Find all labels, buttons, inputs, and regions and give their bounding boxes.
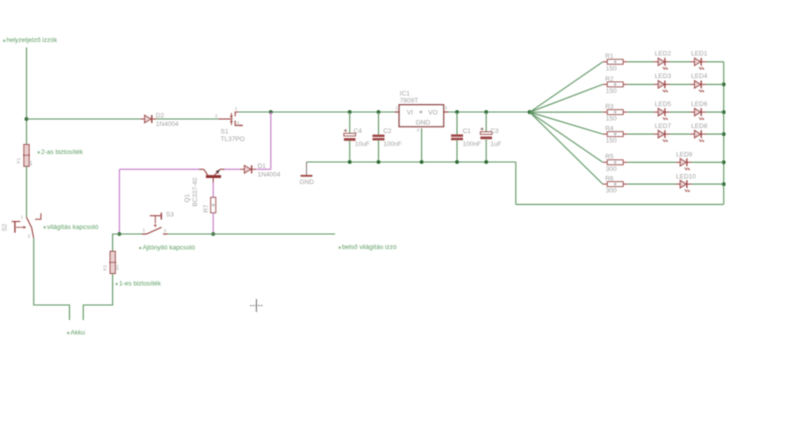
sheet origin cross [250, 299, 263, 312]
label R4 150 [605, 126, 617, 145]
svg-text:7809T: 7809T [400, 98, 418, 105]
junction dots LED column [722, 83, 726, 187]
wire: magenta transistor to D1 [224, 168, 240, 170]
svg-text:LED6: LED6 [691, 101, 708, 108]
label GND [300, 179, 315, 186]
svg-text:2-as biztosíték: 2-as biztosíték [41, 149, 84, 156]
fuse F2 [109, 251, 116, 273]
label LED8 [691, 123, 708, 130]
svg-text:1N4004: 1N4004 [156, 121, 179, 128]
label LED7 [655, 123, 672, 130]
wire: R5 to LED9 [628, 161, 677, 163]
svg-text:LED9: LED9 [676, 152, 693, 159]
label D2 1N4004 [156, 113, 179, 128]
wire: door net left segment [119, 233, 142, 235]
svg-text:C2: C2 [383, 128, 392, 135]
net label: Akku [67, 330, 85, 337]
wire: magenta R7 to door net [212, 213, 214, 234]
svg-text:1uF: 1uF [490, 141, 501, 148]
svg-text:C1: C1 [463, 128, 472, 135]
svg-text:R7: R7 [203, 204, 210, 213]
svg-text:R4: R4 [605, 126, 614, 133]
svg-text:LED7: LED7 [655, 123, 672, 130]
wire: magenta base feed horizontal [119, 168, 199, 170]
label R3 150 [605, 104, 617, 123]
svg-text:LED3: LED3 [655, 73, 672, 80]
resistor R5 300 [603, 160, 628, 165]
wire: IC1 GND pin down [421, 129, 423, 162]
diode D1 [240, 165, 256, 173]
net label: világítás kapcsoló [44, 224, 99, 231]
svg-text:150: 150 [606, 116, 617, 123]
wire: fan branch to R3 [530, 111, 603, 113]
fuse F1 [23, 145, 30, 167]
svg-text:belső világítás izzó: belső világítás izzó [342, 244, 397, 251]
svg-text:GND: GND [300, 179, 315, 186]
LED LED4 [690, 81, 706, 93]
wire: magenta Q1 to R7 [212, 182, 214, 197]
label R6 300 [605, 176, 617, 195]
fan-out node from 9V rail [528, 110, 532, 114]
wire: top rail 9V [239, 111, 530, 113]
label S1 TL37PO [221, 128, 245, 142]
diode D2 [140, 115, 156, 123]
svg-text:LED2: LED2 [655, 51, 672, 58]
wire: R3 to LED5 [628, 111, 655, 113]
wire: jog to F2 [113, 234, 120, 251]
svg-text:150: 150 [606, 88, 617, 95]
svg-text:150: 150 [606, 65, 617, 72]
svg-text:F1: F1 [16, 157, 22, 163]
svg-text:helyzetjelző izzók: helyzetjelző izzók [7, 37, 58, 44]
wire: LED7 to LED8 [670, 133, 691, 135]
svg-text:S2: S2 [1, 223, 8, 231]
label C4 10uF [354, 128, 370, 148]
svg-text:C4: C4 [354, 128, 363, 135]
svg-text:BC337-40: BC337-40 [192, 177, 199, 206]
wire: door net right segment [168, 233, 335, 235]
label LED3 [655, 73, 672, 80]
label R2 150 [605, 76, 617, 95]
wire: horizontal to D2 [27, 118, 141, 120]
svg-text:Q1: Q1 [184, 194, 191, 203]
svg-text:R1: R1 [605, 53, 614, 60]
wire: LED2 to LED1 [670, 61, 691, 63]
capacitor C2 100nF [373, 112, 385, 162]
pin numbers S3 [143, 228, 167, 233]
resistor R6 300 [603, 182, 628, 187]
svg-text:LED8: LED8 [691, 123, 708, 130]
svg-text:Akku: Akku [71, 330, 86, 337]
switch S1 TL37PO [218, 112, 243, 125]
IC1 inner text VI + VO GND [407, 109, 438, 126]
svg-text:C3: C3 [490, 128, 499, 135]
label IC1 7809T [400, 91, 418, 105]
LED LED2 [654, 58, 670, 70]
LED LED3 [654, 81, 670, 93]
wire: LED9 to return column [692, 161, 724, 163]
wire: LED6 to return column [706, 111, 724, 113]
label D1 1N4004 [258, 163, 281, 179]
wire: LED4 to return column [706, 83, 724, 85]
label Q1 BC337-40 [184, 177, 199, 206]
label S3 [166, 212, 174, 219]
svg-text:VO: VO [428, 109, 437, 116]
wire: fan branch to R1 [530, 62, 603, 112]
switch S3 [142, 213, 168, 234]
svg-text:300: 300 [606, 188, 617, 195]
wire: LED return column [723, 62, 725, 205]
svg-text:F2: F2 [103, 265, 109, 271]
wire: ground rail [307, 161, 516, 163]
wire: S2 to battery [34, 238, 70, 320]
svg-text:LED5: LED5 [655, 101, 672, 108]
transistor Q1 BC337-40 [199, 169, 225, 182]
label LED5 [655, 101, 672, 108]
label LED6 [691, 101, 708, 108]
wire: LED8 to return column [706, 133, 724, 135]
wire: R6 to LED10 [628, 183, 677, 185]
wire: D2 to S1 [157, 118, 219, 120]
svg-text:S1: S1 [221, 128, 229, 135]
LED LED8 [690, 130, 706, 142]
svg-text:VI: VI [407, 109, 413, 116]
wire: fan branch to R4 [530, 112, 603, 134]
resistor R2 150 [603, 82, 628, 87]
voltage regulator IC1 7809T [395, 105, 449, 132]
svg-text:TL37PO: TL37PO [221, 136, 245, 143]
switch S2 [12, 213, 41, 238]
junction rail/D1 branch [269, 110, 273, 114]
svg-text:10uF: 10uF [355, 141, 370, 148]
label C3 1uF [490, 128, 501, 148]
svg-text:LED1: LED1 [691, 51, 708, 58]
label LED4 [691, 73, 708, 80]
LED LED6 [690, 108, 706, 120]
LED LED9 [676, 158, 692, 170]
wire: fan branch to R5 [530, 112, 603, 162]
svg-text:1-es biztosíték: 1-es biztosíték [119, 281, 162, 288]
wire: magenta drop to D1 [270, 112, 272, 169]
junction R7/door wire [211, 232, 215, 236]
label LED2 [655, 51, 672, 58]
junction dots ground rail [348, 160, 488, 164]
svg-text:R3: R3 [605, 104, 614, 111]
wire: fan branch to R2 [530, 84, 603, 112]
label LED9 [676, 152, 693, 159]
svg-text:D1: D1 [258, 163, 267, 170]
pin numbers S2 [21, 215, 31, 239]
resistor R4 150 [603, 132, 628, 137]
resistor R1 150 [603, 59, 628, 64]
svg-text:IC1: IC1 [400, 91, 411, 98]
label LED1 [691, 51, 708, 58]
wire: lamp feed vertical [26, 48, 28, 145]
junction dots top rail [348, 110, 532, 114]
label F2 [103, 265, 120, 271]
wire: LED3 to LED4 [670, 83, 691, 85]
capacitor C1 100nF [451, 112, 463, 162]
wire: LED5 to LED6 [670, 111, 691, 113]
net label: Ajtónyitó kapcsoló [139, 245, 195, 252]
label F1 [16, 157, 33, 166]
pin numbers S1 [215, 106, 240, 125]
resistor R7 [211, 197, 216, 212]
wire: R1 to LED2 [628, 61, 655, 63]
net label: helyzetjelző izzók [3, 37, 58, 44]
net label: belső világítás izzó [339, 244, 397, 251]
wire: LED1 to return column [706, 61, 724, 63]
net label: 2-as biztosíték [38, 149, 84, 156]
label S2 [1, 223, 8, 231]
svg-text:LED4: LED4 [691, 73, 708, 80]
IC1 pin numbers [395, 106, 447, 133]
junction base-feed/door wire [118, 232, 122, 236]
LED LED1 [690, 58, 706, 70]
svg-text:GND: GND [416, 119, 431, 126]
svg-text:S3: S3 [166, 212, 174, 219]
net label: 1-es biztosíték [116, 281, 162, 288]
ground symbol GND [301, 162, 313, 176]
svg-text:300: 300 [606, 166, 617, 173]
label LED10 [676, 174, 696, 181]
svg-text:1N4004: 1N4004 [258, 172, 281, 179]
wire: LED10 to return column [692, 183, 724, 185]
wire: magenta base feed vertical [118, 169, 120, 234]
svg-text:LED10: LED10 [676, 174, 696, 181]
capacitor C4 10uF [344, 112, 356, 162]
wire: fan branch to R6 [530, 112, 603, 184]
label R1 150 [605, 53, 617, 72]
wire: LED return bottom [516, 203, 724, 205]
svg-text:4A: 4A [28, 161, 33, 166]
label R7 [203, 204, 210, 213]
junction at fuse/diode tap [25, 117, 29, 121]
svg-text:100nF: 100nF [463, 141, 481, 148]
resistor R3 150 [603, 110, 628, 115]
label C1 100nF [463, 128, 481, 148]
wire: F2 to battery [83, 274, 112, 321]
wire: magenta D1 to junction [257, 168, 271, 170]
wire: F1 to S2 [26, 166, 28, 217]
LED LED7 [654, 130, 670, 142]
LED LED10 [676, 180, 692, 192]
label C2 100nF [383, 128, 401, 148]
svg-text:R5: R5 [605, 154, 614, 161]
label R5 300 [605, 154, 617, 173]
wire: R4 to LED7 [628, 133, 655, 135]
wire: R2 to LED3 [628, 83, 655, 85]
svg-text:150: 150 [606, 138, 617, 145]
svg-text:R2: R2 [605, 76, 614, 83]
svg-text:Ajtónyitó kapcsoló: Ajtónyitó kapcsoló [143, 245, 196, 252]
svg-text:4A: 4A [114, 265, 119, 270]
wire: ground rail to LED return, down [515, 162, 517, 204]
svg-text:R6: R6 [605, 176, 614, 183]
capacitor C3 1uF [480, 112, 492, 162]
svg-text:100nF: 100nF [383, 141, 401, 148]
svg-text:világítás kapcsoló: világítás kapcsoló [47, 224, 99, 231]
LED LED5 [654, 108, 670, 120]
